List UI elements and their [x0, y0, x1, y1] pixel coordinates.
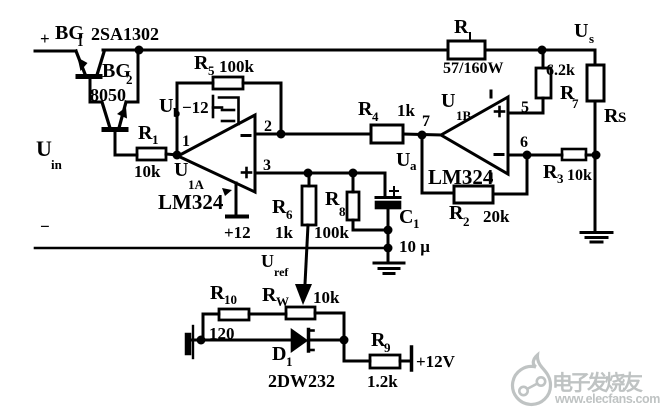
node C1/rail [384, 244, 393, 253]
svg-text:10k: 10k [567, 167, 592, 184]
wire BG1 base to BG2 [90, 78, 102, 102]
svg-text:1: 1 [413, 216, 420, 231]
svg-text:20k: 20k [483, 207, 510, 226]
watermark logo [513, 355, 551, 404]
svg-text:a: a [410, 158, 417, 173]
capacitor C1 [376, 187, 400, 248]
svg-text:R: R [138, 122, 153, 144]
terminal bar +12V [410, 347, 414, 370]
R label tick [469, 33, 471, 41]
plus sign U1B [495, 107, 504, 116]
wire rail top left [103, 49, 448, 52]
svg-text:1: 1 [286, 354, 293, 369]
svg-text:8050: 8050 [90, 85, 126, 105]
svg-text:U: U [36, 136, 52, 161]
wire input + [35, 50, 76, 53]
svg-text:2: 2 [264, 118, 272, 135]
svg-text:100k: 100k [314, 223, 350, 242]
svg-text:W: W [276, 294, 289, 309]
svg-text:1: 1 [77, 34, 84, 49]
svg-text:in: in [51, 157, 63, 172]
ground right column [581, 233, 612, 243]
node rail/BG [135, 46, 144, 55]
supply tick bottom U1B [490, 174, 493, 181]
svg-text:6.2k: 6.2k [546, 62, 575, 79]
wire Rs column down [594, 101, 597, 231]
resistor R1 [137, 148, 166, 160]
svg-text:100k: 100k [219, 57, 255, 76]
resistor R5 [213, 77, 243, 89]
wire R10 to RW [249, 313, 286, 316]
node R3/Rs column [592, 151, 601, 160]
svg-text:C: C [399, 206, 413, 228]
svg-text:57/160W: 57/160W [443, 60, 503, 77]
transistor BG1 [76, 51, 104, 77]
svg-text:3: 3 [557, 171, 564, 186]
svg-text:R: R [210, 282, 225, 304]
wire R9 right [400, 360, 410, 363]
svg-text:1k: 1k [275, 223, 294, 242]
resistor Rs [587, 65, 604, 101]
node pin6 [523, 151, 532, 160]
svg-text:2: 2 [126, 72, 133, 87]
svg-text:1B: 1B [456, 108, 472, 123]
plus sign U1A [242, 168, 251, 177]
wire rail to Rs [485, 50, 595, 65]
svg-text:2DW232: 2DW232 [268, 371, 335, 391]
svg-text:U: U [159, 95, 173, 117]
node rail/R7 [538, 46, 547, 55]
resistor R6 [302, 173, 316, 284]
resistor R10 [219, 309, 249, 320]
svg-text:3: 3 [263, 157, 271, 174]
potentiometer RW [286, 307, 315, 319]
svg-text:+12: +12 [224, 223, 251, 242]
svg-text:10 μ: 10 μ [399, 237, 430, 256]
node op-amp1 output [173, 151, 182, 160]
wire bottom rail [35, 247, 388, 250]
svg-text:R: R [543, 161, 558, 183]
node bottom left [197, 336, 206, 345]
svg-text:9: 9 [384, 340, 391, 355]
supply -12 symbol [213, 96, 239, 124]
minus sign U1B [495, 153, 503, 156]
svg-text:1.2k: 1.2k [367, 372, 398, 391]
resistor R7 [536, 50, 551, 113]
svg-text:R: R [194, 52, 209, 74]
svg-text:4: 4 [372, 109, 379, 124]
svg-text:R: R [325, 188, 340, 210]
wire pin2 [255, 133, 371, 136]
svg-text:U: U [574, 20, 588, 42]
wire R1 to node [166, 154, 178, 155]
svg-text:8: 8 [339, 204, 346, 219]
svg-text:D: D [272, 343, 286, 365]
svg-text:+: + [40, 29, 50, 48]
svg-text:LM324: LM324 [428, 165, 494, 189]
wire R2 to pin6 [493, 155, 527, 194]
wire pin5 [508, 112, 543, 115]
resistor R4 [371, 125, 403, 143]
svg-text:U: U [441, 90, 455, 112]
supply tick top U1B [490, 91, 493, 97]
svg-text:120: 120 [209, 324, 235, 343]
svg-text:10: 10 [224, 292, 237, 307]
wire pin3 [255, 173, 385, 196]
wire feedback U1B [422, 135, 454, 193]
svg-text:U: U [261, 251, 274, 271]
svg-text:www.elecfans.com: www.elecfans.com [554, 392, 660, 406]
svg-text:R: R [358, 98, 373, 120]
svg-text:R: R [262, 284, 277, 306]
node pin3/R8 [349, 169, 358, 178]
op-amp U1B [441, 97, 508, 174]
resistor R [448, 41, 485, 59]
svg-text:R: R [454, 16, 469, 38]
zener D1 [292, 330, 314, 352]
resistor R8 [347, 173, 359, 230]
wire rail to BG2 right [126, 50, 138, 102]
svg-text:7: 7 [572, 96, 579, 111]
wire BG2 emitter to R1 [115, 131, 137, 155]
node pin3/R6 [304, 169, 313, 178]
resistor R2 [454, 186, 493, 203]
wire node to R9 [344, 340, 370, 361]
svg-text:10k: 10k [313, 288, 340, 307]
terminal bar bottom left [185, 336, 192, 352]
transistor BG2 [102, 102, 127, 130]
svg-text:10k: 10k [134, 162, 161, 181]
supply +12 lead [235, 183, 238, 215]
resistor R3 [562, 149, 586, 160]
wire feedback left vertical [177, 83, 213, 152]
svg-text:−12: −12 [182, 98, 209, 117]
wire bottom left [191, 339, 292, 342]
svg-text:6: 6 [286, 207, 293, 222]
svg-text:ref: ref [274, 265, 289, 279]
potentiometer RW arrow [295, 284, 312, 305]
svg-text:+12V: +12V [416, 352, 456, 371]
svg-text:s: s [589, 31, 594, 46]
supply +12 bar [227, 215, 247, 219]
svg-text:U: U [396, 149, 410, 171]
svg-text:6: 6 [520, 134, 528, 151]
arrow mark after LM324 [222, 188, 232, 196]
wire R8 bottom to C1 [353, 229, 388, 232]
wire pin6 [508, 154, 562, 157]
svg-text:1: 1 [182, 133, 190, 150]
svg-text:R: R [272, 196, 287, 218]
svg-text:7: 7 [422, 113, 430, 130]
op-amp U1A [178, 115, 255, 192]
wire R3 to column [586, 154, 596, 157]
node bottom right [340, 336, 349, 345]
wire RW right [315, 313, 344, 340]
svg-text:LM324: LM324 [158, 190, 224, 214]
svg-text:−: − [40, 217, 50, 236]
resistor R9 [370, 355, 400, 368]
svg-text:5: 5 [208, 63, 215, 78]
wire R10 left down [203, 314, 219, 340]
node R8/C1 [384, 226, 393, 235]
svg-text:2SA1302: 2SA1302 [91, 24, 159, 44]
svg-text:S: S [618, 110, 626, 126]
svg-text:R: R [604, 105, 619, 127]
minus sign U1A [242, 134, 250, 137]
svg-text:R: R [449, 202, 464, 224]
svg-text:2: 2 [463, 214, 470, 229]
svg-text:1: 1 [152, 132, 159, 147]
node pin7 [418, 131, 427, 140]
wire R4 to U1B [403, 134, 441, 135]
ground under C1 [374, 248, 404, 274]
svg-text:5: 5 [521, 99, 529, 116]
svg-text:1k: 1k [397, 101, 416, 120]
wire zener to node [310, 339, 344, 342]
svg-text:U: U [174, 159, 188, 181]
wire R5 right to pin2 [243, 83, 281, 133]
svg-text:b: b [173, 105, 180, 120]
node pin2/R5 [277, 130, 286, 139]
